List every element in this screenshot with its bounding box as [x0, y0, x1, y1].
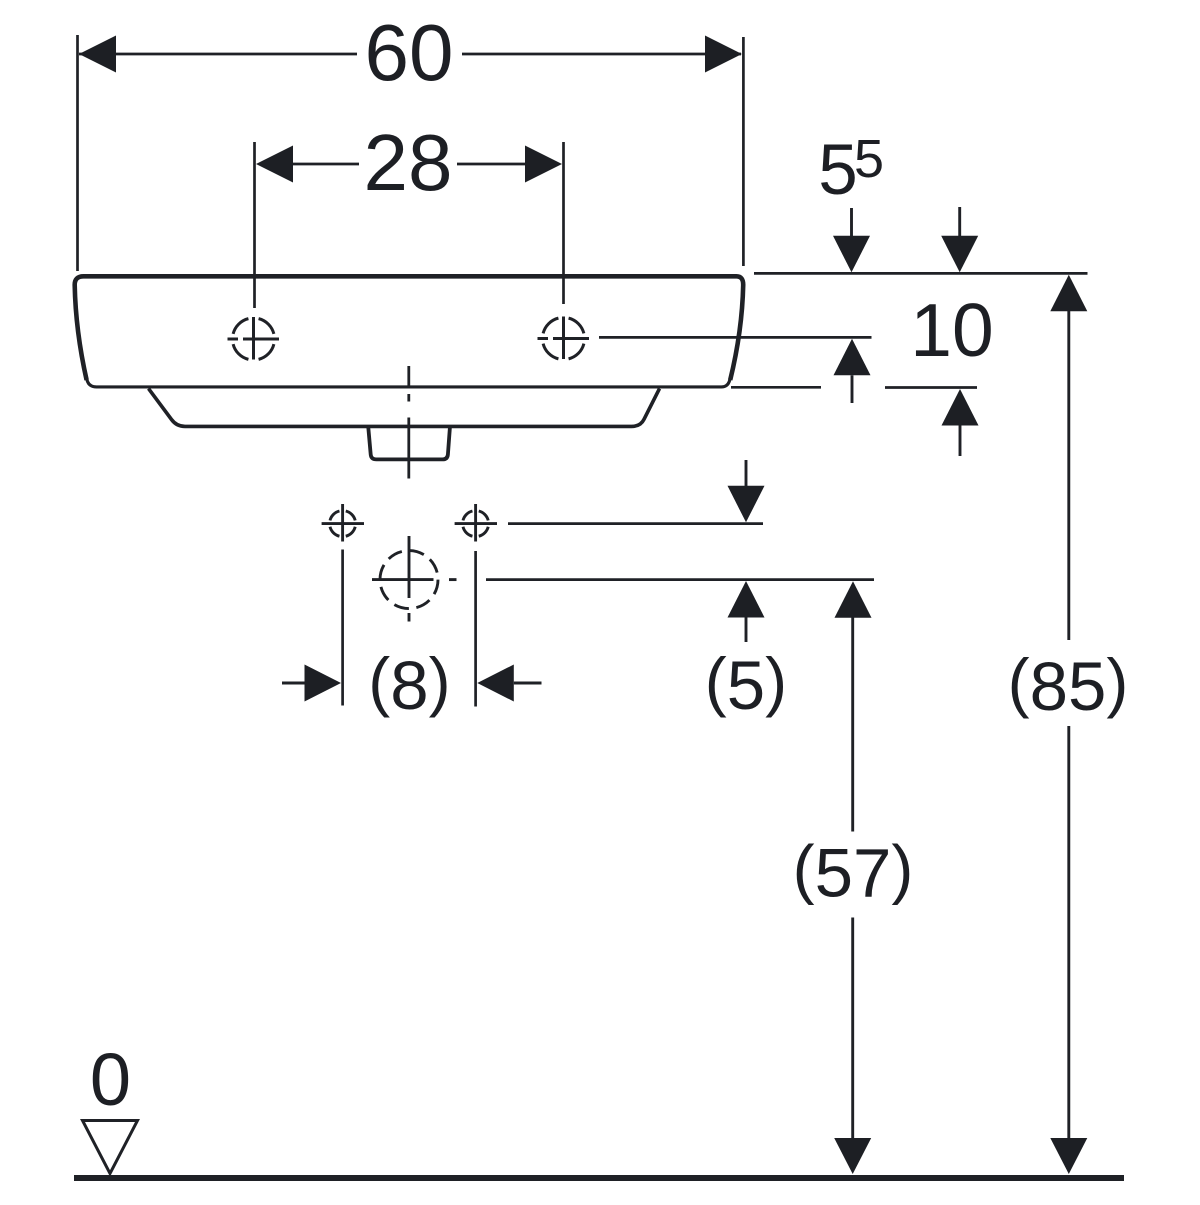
svg-text:(5): (5) — [705, 644, 787, 724]
mounting hole reference line (5 dim upper) — [508, 522, 763, 525]
drain hole crosshair — [372, 536, 457, 622]
up arrow 10 dim at x=960 — [942, 389, 979, 426]
svg-text:28: 28 — [364, 118, 453, 207]
dimension line 85 vertical — [1067, 311, 1070, 640]
datum triangle symbol — [83, 1121, 138, 1174]
svg-text:60: 60 — [365, 8, 454, 97]
svg-text:5: 5 — [854, 129, 884, 189]
extension line below right mounting hole — [474, 551, 477, 707]
svg-text:0: 0 — [90, 1038, 131, 1121]
svg-text:(57): (57) — [793, 832, 914, 912]
drain centerline (dashed) — [407, 366, 410, 387]
tap hole left (dashed circle + crosshair) — [228, 317, 280, 360]
extension line left (60 dim) — [76, 35, 79, 271]
up arrow 5 dim — [728, 581, 765, 618]
svg-text:(85): (85) — [1008, 645, 1129, 725]
down arrow 10 dim at x=959.7 — [958, 207, 961, 236]
dimension line 57 vertical — [851, 618, 854, 832]
basin underside trapezoid — [149, 389, 660, 427]
dimension line 28 — [290, 163, 359, 166]
arrow 8 dim right — [477, 665, 514, 702]
mounting hole right small crossed circle — [455, 504, 497, 542]
arrowhead 28 right — [525, 146, 562, 183]
basin body outline — [75, 276, 744, 380]
down arrow 85 bottom — [1050, 1138, 1087, 1174]
arrow 8 dim left — [282, 682, 306, 685]
mounting hole left small crossed circle — [322, 504, 364, 542]
extension line left (28 dim) — [253, 142, 256, 308]
arrowhead 60 right — [705, 36, 742, 73]
arrowhead 60 left — [79, 36, 116, 73]
up arrow 5.5 dim at x=852 — [834, 339, 871, 376]
tap hole leader line — [599, 336, 872, 339]
up arrow 57 top — [835, 581, 872, 618]
arrowhead 28 left — [256, 146, 293, 183]
wall reference line (top of basin level) — [754, 272, 1088, 275]
floor line — [74, 1175, 1124, 1181]
tap hole right (dashed circle + crosshair) — [538, 317, 590, 360]
up arrow 85 top — [1050, 275, 1087, 312]
drain hole large dashed circle — [380, 551, 438, 609]
extension line right (60 dim) — [742, 37, 745, 266]
down arrow 57 bottom — [834, 1138, 871, 1174]
svg-text:5: 5 — [818, 131, 858, 210]
basin bottom reference line segments — [731, 386, 821, 389]
down arrow 5.5 dim at x=851.5 — [850, 208, 853, 237]
down arrow 5 dim — [745, 460, 748, 489]
basin bottom edge — [87, 378, 731, 387]
dimension line 60 — [79, 53, 357, 56]
extension line right (28 dim) — [562, 142, 565, 304]
svg-text:(8): (8) — [368, 644, 450, 724]
svg-text:10: 10 — [910, 288, 993, 372]
drain hole reference line (5 dim lower / 57 dim top) — [486, 578, 874, 581]
extension line below left mounting hole — [341, 550, 344, 706]
drain box — [368, 428, 450, 460]
